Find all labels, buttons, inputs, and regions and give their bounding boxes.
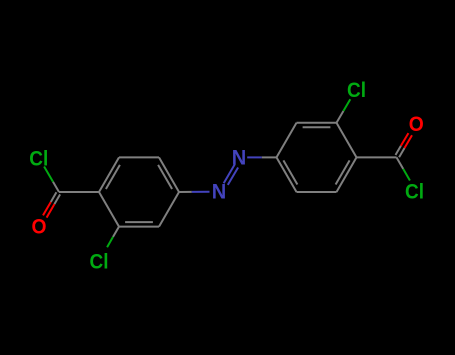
wire inner double bond C4=C5 (left ring) (158, 165, 172, 189)
svg-text:Cl: Cl (90, 250, 109, 273)
wire inner double bond C5'=C6' (right ring) (303, 126, 331, 128)
svg-text:O: O (32, 216, 47, 239)
wire inner double bond C6=C1 (left ring) (106, 165, 120, 189)
wire bond C(acyl)-C1 (59, 191, 99, 193)
svg-text:N: N (232, 146, 247, 169)
wire inner double bond C3'=C4' (right ring) (336, 160, 350, 184)
svg-text:Cl: Cl (29, 147, 48, 170)
wire bond C4'-C(acyl') (357, 156, 397, 158)
wire bond C3'-C4' (right ring) (337, 157, 357, 192)
wire bond C(acyl)-Cl (left acyl chloride) (44, 167, 59, 193)
wire bond C4-C5 (left ring) (159, 157, 179, 192)
wire bond C4-N1 (azo attach left) (179, 191, 210, 193)
wire double bond C=O (right carbonyl) (396, 133, 413, 157)
wire inner double bond C2=C3 (left ring) (125, 221, 153, 223)
svg-text:Cl: Cl (405, 181, 424, 204)
wire bond C5'-Cl (right ring chloro) (337, 99, 351, 123)
wire inner double bond C1'=C2' (right ring) (283, 160, 297, 184)
svg-text:N: N (212, 181, 227, 204)
wire bond C1-C2 (left ring) (99, 192, 119, 227)
svg-text:Cl: Cl (347, 79, 366, 102)
wire bond C5'-C6' (right ring) (297, 122, 337, 124)
svg-text:O: O (409, 113, 424, 136)
wire bond C6'-C1' (right ring) (277, 123, 297, 158)
wire double bond C=O (left carbonyl) (43, 192, 60, 217)
wire bond C2-Cl (left ring chloro) (107, 227, 119, 248)
wire bond C(acyl')-Cl (right acyl chloride) (397, 157, 410, 180)
wire bond C2'-C3' (right ring) (297, 191, 337, 193)
wire bond C1'-C2' (right ring) (277, 157, 297, 192)
wire bond C5-C6 (left ring) (119, 156, 159, 158)
wire bond N2-C1' (azo attach right) (247, 156, 276, 158)
wire bond C3-C4 (left ring) (159, 192, 179, 227)
wire bond C2-C3 (left ring) (119, 226, 159, 228)
wire bond C4'-C5' (right ring) (337, 123, 357, 158)
wire bond C6-C1 (left ring) (99, 157, 119, 192)
wire double bond N1=N2 (azo) (224, 164, 238, 185)
